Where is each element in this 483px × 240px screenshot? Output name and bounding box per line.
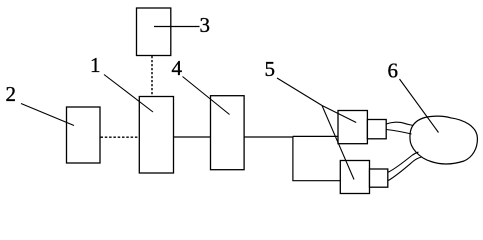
wire 4 to junction (244, 136, 293, 138)
leader line 4 (183, 77, 230, 115)
dotted link 2-1 (101, 136, 140, 138)
wire 1-4 (174, 136, 211, 138)
leader line 5 stem (277, 78, 322, 106)
lower block 5 box (340, 161, 369, 194)
lower block 5 nozzle (370, 169, 388, 187)
svg-text:3: 3 (200, 13, 211, 37)
block 4 box (211, 96, 245, 170)
upper block 5 box (338, 111, 367, 144)
upper tube top line (386, 122, 413, 125)
svg-text:5: 5 (265, 57, 276, 81)
leader line 3 (154, 26, 200, 28)
lower tube bottom line (388, 157, 422, 181)
leader line 2 (21, 104, 74, 126)
dotted link 3-1 (151, 56, 153, 95)
svg-text:4: 4 (172, 56, 183, 80)
leader line 1 (104, 75, 153, 113)
leader line 6 (400, 79, 439, 133)
upper tube bottom line (386, 130, 411, 135)
block 3 box (137, 8, 171, 56)
upper block 5 nozzle (367, 120, 386, 139)
balloon 6 body (410, 116, 477, 164)
leader 5 branch to upper block (322, 106, 356, 123)
wire junction down to lower block 5 (293, 136, 341, 180)
leader 5 branch to lower block (322, 106, 354, 180)
block 2 box (67, 107, 101, 163)
wire junction to upper block 5 (293, 135, 339, 137)
svg-text:6: 6 (388, 59, 399, 83)
block 1 box (139, 97, 173, 174)
svg-text:1: 1 (90, 53, 101, 77)
lower tube top line (388, 152, 419, 172)
svg-text:2: 2 (6, 82, 17, 106)
